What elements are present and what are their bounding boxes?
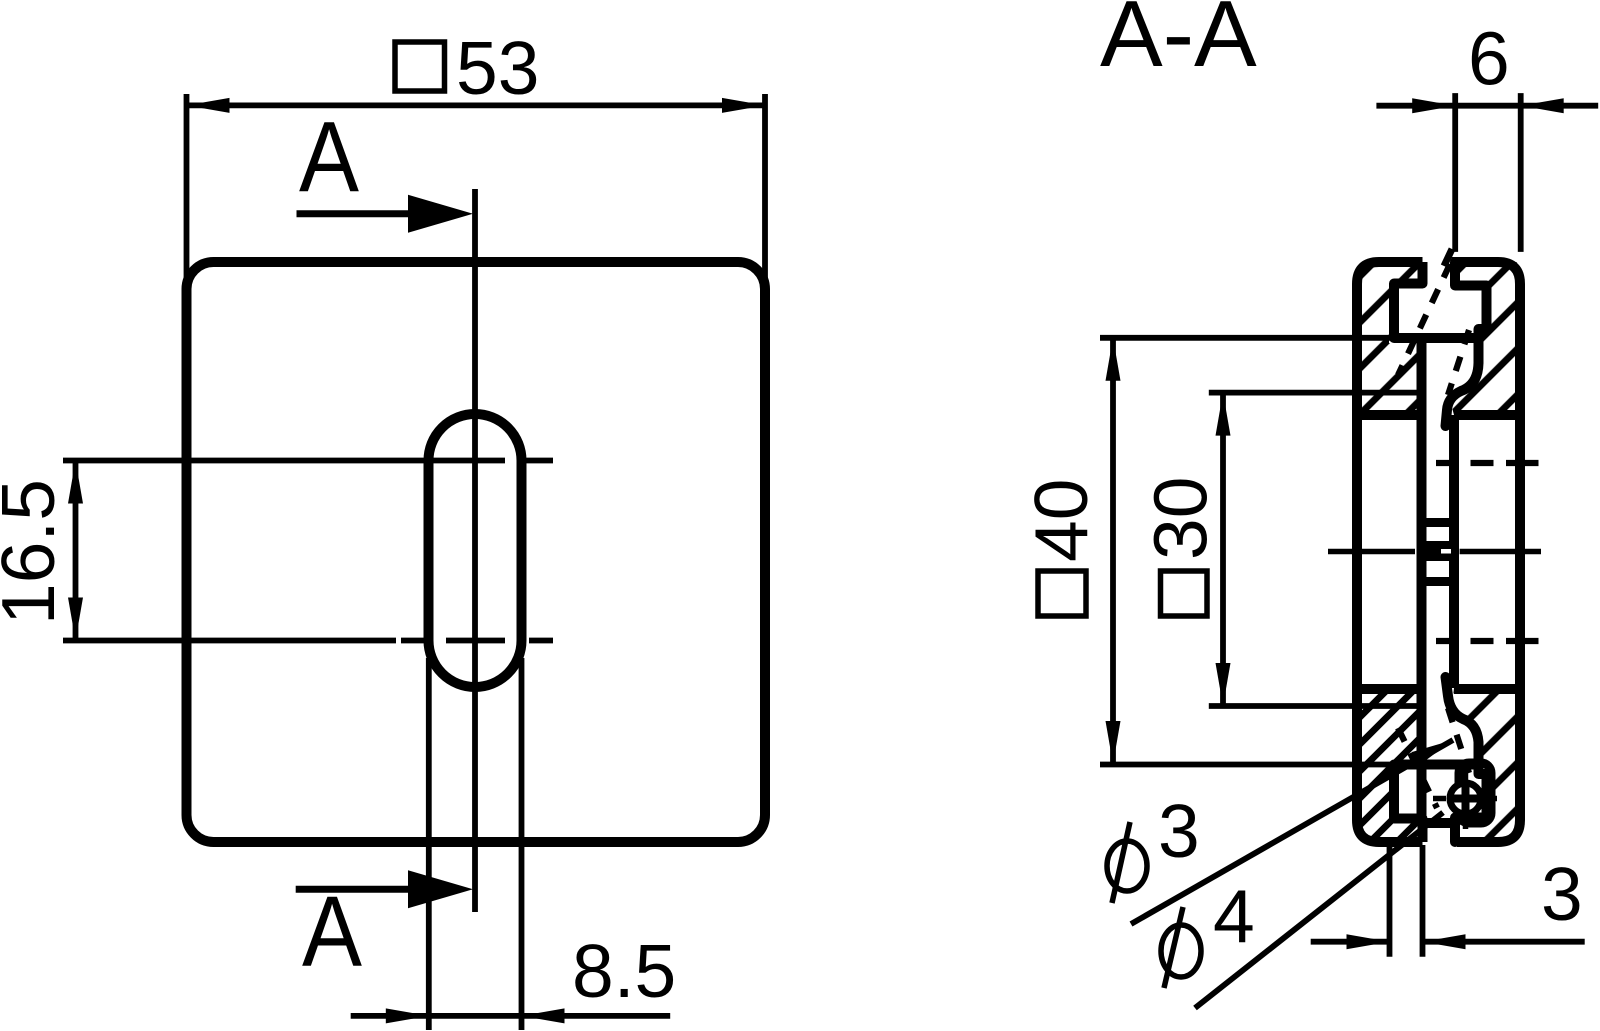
square symbol 40 [1038,571,1086,616]
diameter symbol 4 [1161,907,1201,988]
lug underside top [1357,410,1422,420]
dimension 53 arrowhead right [722,98,765,113]
left wall [1357,262,1423,842]
screw cross recess [1453,786,1479,812]
slot bottom edge [1454,684,1520,694]
slot top edge [1454,410,1520,420]
latch bottom [1446,677,1487,842]
dimension 6 [1376,93,1598,252]
centerline / cutting plane A-A vertical [472,189,478,912]
steep dashed hidden lines bottom [1398,708,1469,808]
channel left wall [1417,338,1427,819]
leader diameter 3 arrowhead [1412,740,1453,765]
screw centerline ticks [1433,769,1497,829]
bottom C notch [1394,765,1475,843]
svg-text:3: 3 [1158,789,1200,873]
dimension 53 arrowhead left [187,98,230,113]
extension line slot left edge [426,658,432,1030]
dimension 16.5 arrowhead down [68,598,83,641]
lug top bottom block [1357,684,1422,694]
svg-text:8.5: 8.5 [572,929,676,1013]
svg-text:A-A: A-A [1100,0,1257,86]
extension line slot right edge [519,658,525,1030]
plate outline rounded square 53x53 [187,262,766,842]
latch tip above top edge [1444,249,1452,266]
white notch in rib block [1441,549,1451,554]
dimension 8.5 arrowhead left [386,1008,429,1023]
dimension 6 arrowhead left [1412,98,1455,113]
dimension 8.5 [351,1013,671,1019]
dimension 16.5 arrowhead up [68,461,83,504]
svg-text:4: 4 [1213,874,1255,958]
svg-text:30: 30 [1139,477,1223,560]
diameter symbol 3 [1107,822,1147,903]
svg-text:A: A [302,876,362,988]
dimension 3 arrowhead right [1423,934,1466,949]
screw pocket [1459,763,1491,823]
dimension 3 arrowhead left [1347,934,1390,949]
hatch zone bottom plate [1452,688,1520,842]
dimension 40 [1100,338,1393,765]
dimension 16.5 [73,461,79,641]
leader diameter 4 [1195,813,1443,1009]
top C notch [1394,262,1475,338]
hatch zone top plate [1450,262,1520,415]
bottom notch bridge [1423,818,1458,828]
svg-text:53: 53 [456,26,539,110]
center/extension line y=460.5 [63,458,505,464]
dimension 6 arrowhead right [1521,98,1564,113]
section arrow top [297,195,474,233]
slot obround [429,414,522,687]
dimension 8.5 arrowhead right [522,1008,565,1023]
svg-text:3: 3 [1541,852,1583,936]
leader diameter 3 [1131,740,1453,924]
hatch zone bottom lug [1357,688,1422,842]
dimension 40 arrowhead up [1106,338,1121,381]
svg-text:6: 6 [1468,17,1510,101]
square symbol of dim 53 [395,42,445,91]
screw head circle [1450,783,1481,814]
dashed hidden line y=463 [1436,460,1539,466]
dimension 40 arrowhead down [1106,721,1121,764]
steep dashed hidden lines top [1398,264,1469,395]
hatch zone top lug [1357,262,1422,415]
right wall / face plate [1452,262,1521,842]
solid rib block middle [1426,541,1450,561]
center/extension line y=640.5 [63,638,396,644]
svg-text:A: A [299,101,359,213]
channel right wall [1449,415,1459,688]
latch top [1446,262,1487,426]
section arrow bottom [296,870,473,908]
dimension 3 bottom right [1311,845,1585,957]
dimension 53: extension lines [184,94,190,300]
horizontal centerline of section [1328,549,1415,555]
svg-text:40: 40 [1019,479,1103,562]
square symbol 30 [1161,571,1208,616]
dimension 53: dimension line [187,103,766,109]
dashed hidden line y=641 [1436,638,1539,644]
dimension 30 [1209,393,1421,706]
svg-text:16.5: 16.5 [0,479,70,625]
dimension 30 arrowhead down [1216,663,1231,706]
dimension 30 arrowhead up [1216,393,1231,436]
rungs [1422,518,1455,527]
